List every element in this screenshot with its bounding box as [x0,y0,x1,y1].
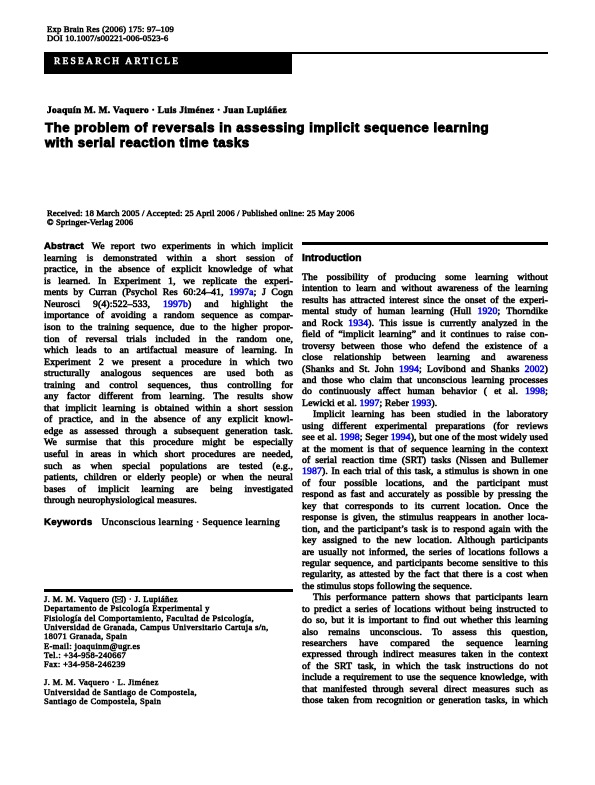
footnote rule [44,589,293,592]
title (2 lines, bold sans) [45,120,489,150]
black bar RESEARCH ARTICLE [44,52,292,74]
Introduction heading [302,253,361,264]
intro paragraph 1 [302,272,548,707]
authors line [47,106,287,116]
received / accepted line [47,209,355,228]
footnote block 2 [44,678,197,706]
journal header line 1 [47,25,174,34]
rule above Introduction [302,242,548,245]
LEFT COLUMN: abstract [44,241,293,507]
journal header line 2 (DOI) [47,34,168,43]
keywords line [44,517,280,528]
bar label text [54,57,180,67]
footnote block 1 [44,595,269,669]
thin top rule [44,52,548,54]
